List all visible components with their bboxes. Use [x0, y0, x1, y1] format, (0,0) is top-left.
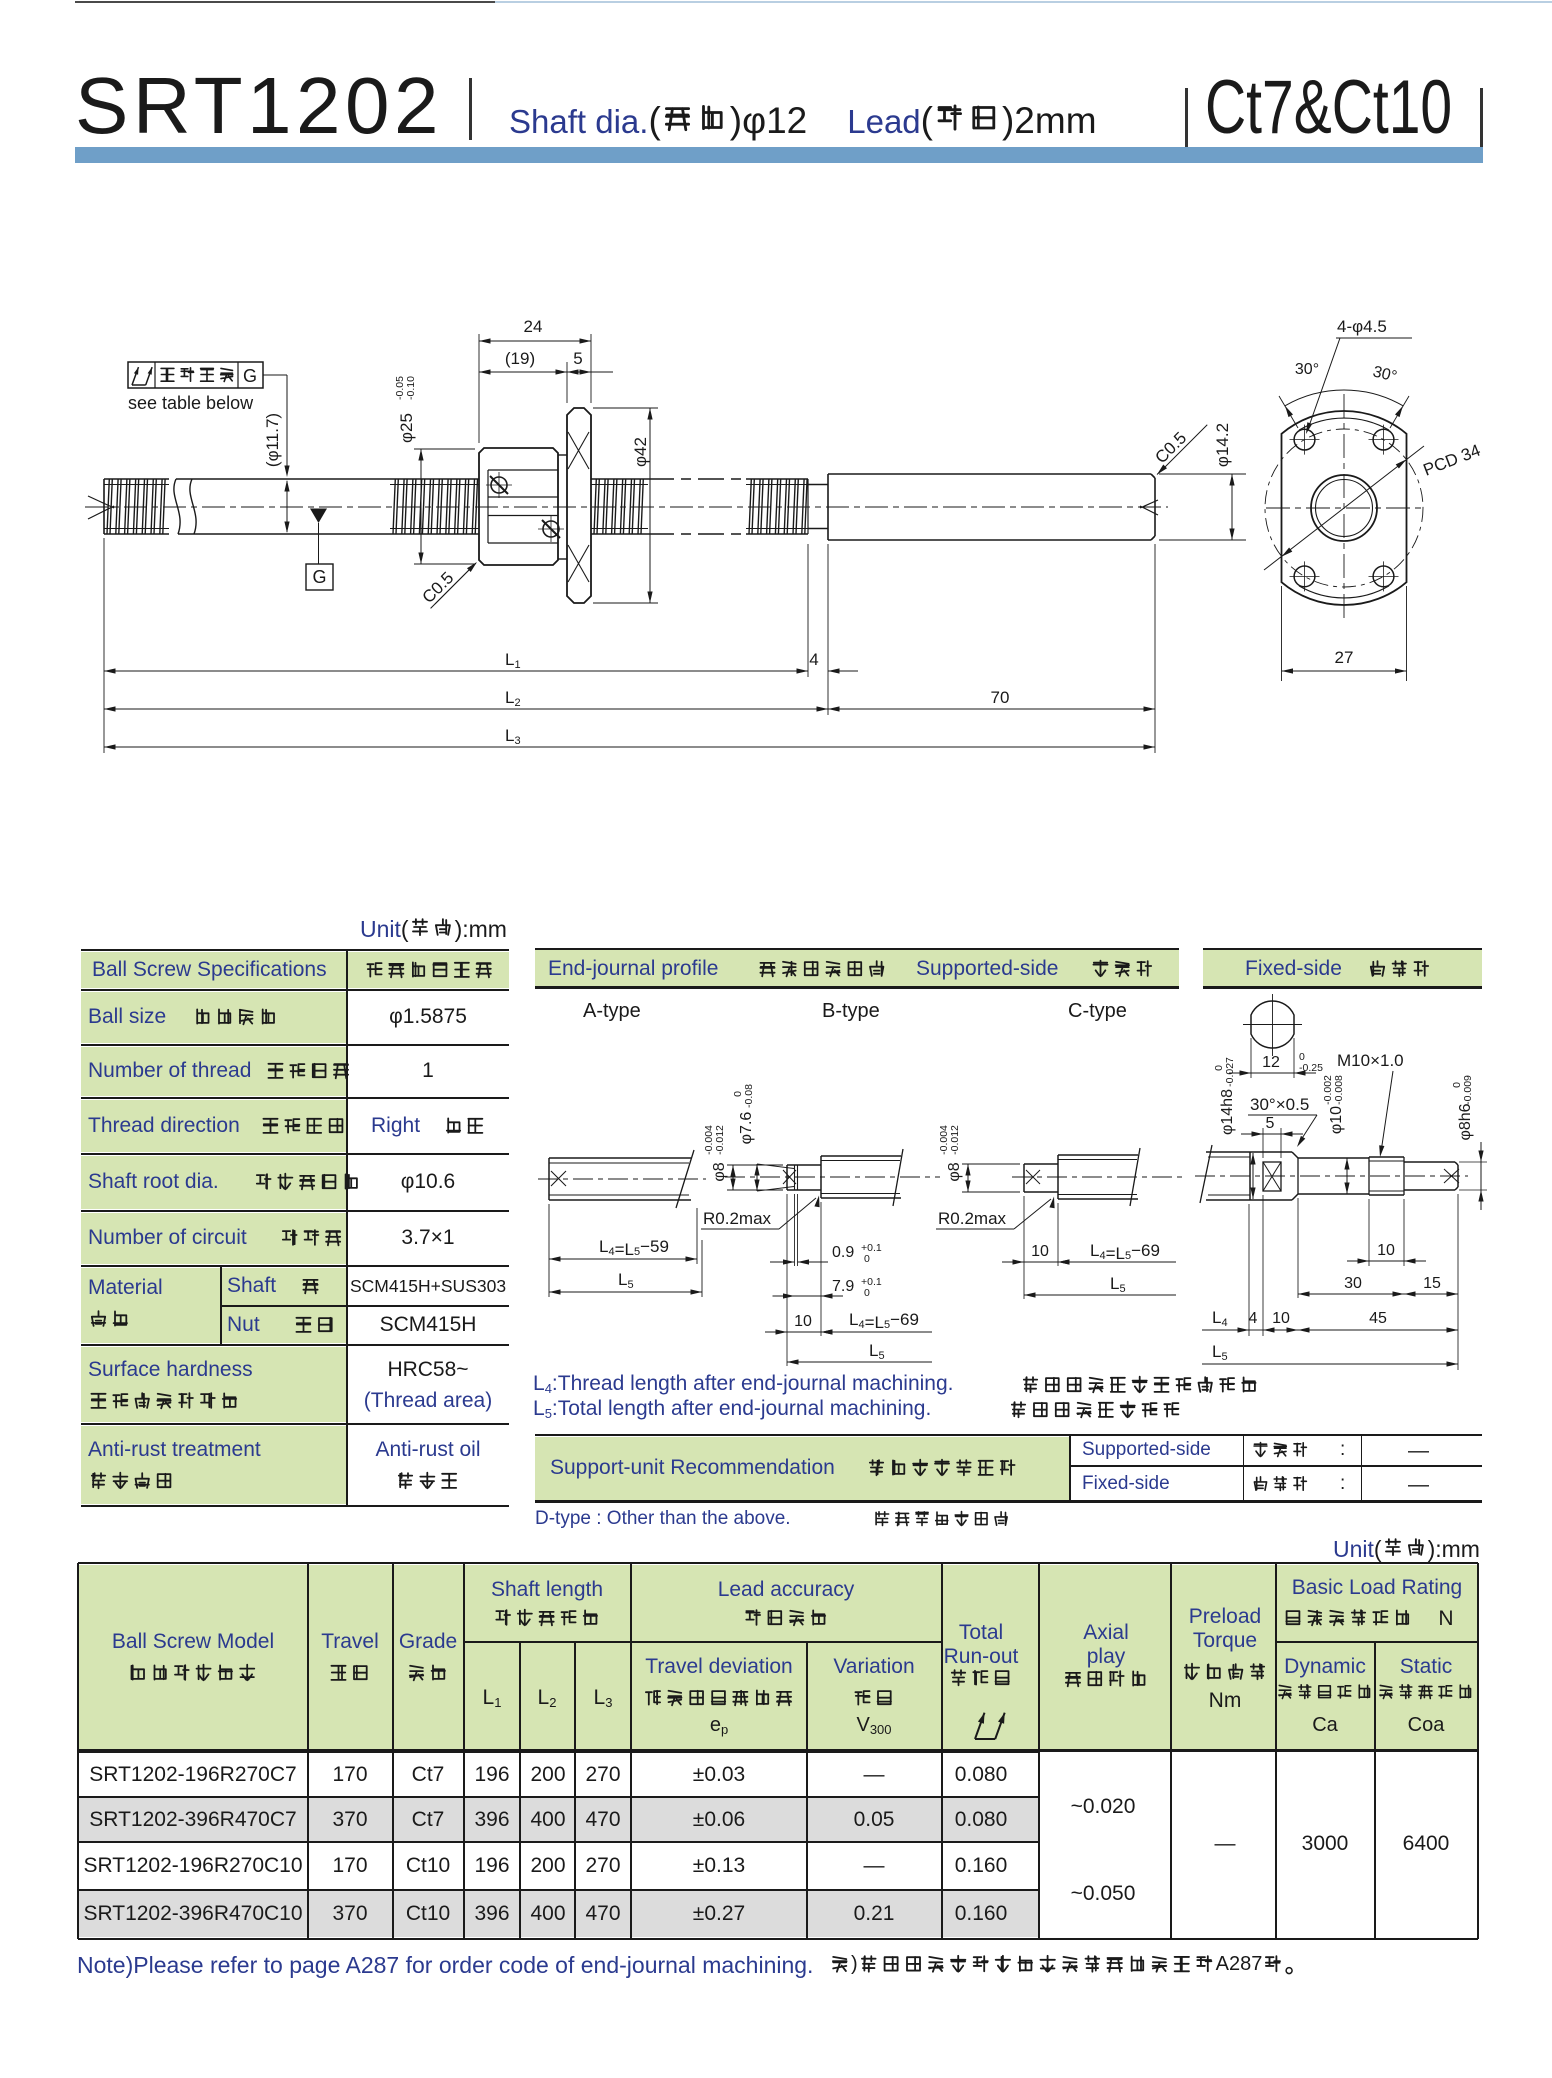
bottom dimension extension lines	[103, 538, 105, 753]
data row 4	[83, 1902, 302, 1926]
dimension L3	[104, 746, 1155, 748]
A-type label	[583, 1000, 641, 1023]
bottom note	[77, 1952, 813, 1979]
dim 5 (flats width)	[1262, 1128, 1264, 1158]
thread band 4	[746, 478, 808, 480]
dimension 70	[828, 708, 1155, 710]
dim 12	[1250, 1038, 1252, 1078]
fixed-side tip center mark	[1444, 1169, 1459, 1183]
note L4	[533, 1372, 954, 1396]
svg-text:L5: L5	[1212, 1342, 1228, 1363]
flange chamfer arcs	[1299, 418, 1389, 430]
grub screw 2	[543, 521, 559, 537]
svg-text:φ8: φ8	[946, 1162, 963, 1181]
plain shaft section	[176, 478, 390, 480]
fixed chain dims L4 4 10 45	[1248, 1204, 1250, 1336]
svg-text:15: 15	[1423, 1275, 1441, 1292]
C0.5 label nut	[417, 550, 476, 609]
spec row: surface hardness	[88, 1358, 253, 1382]
header divider 3	[1480, 88, 1483, 148]
G leader	[263, 374, 287, 376]
header subtitle	[509, 100, 1097, 142]
svg-text:4: 4	[1249, 1310, 1258, 1327]
flange end view outline	[1282, 411, 1407, 605]
C-type phi8 dim	[962, 1163, 1020, 1165]
dimension 24	[478, 334, 480, 443]
A-type break line	[676, 1150, 694, 1208]
spec table green cells	[81, 952, 509, 988]
svg-text:φ7.6: φ7.6	[738, 1112, 755, 1145]
bolt hole 1	[1294, 429, 1315, 450]
grub screw 1	[491, 477, 507, 493]
main table gray rows	[78, 1797, 1039, 1842]
spec row: shaft root dia	[88, 1170, 219, 1194]
svg-text:R0.2max: R0.2max	[938, 1209, 1007, 1228]
C-type label	[1068, 1000, 1127, 1023]
spec row: material	[88, 1276, 163, 1300]
svg-text:0.9: 0.9	[832, 1244, 854, 1261]
fixed-side header bar	[1203, 950, 1482, 986]
C-type center mark	[1026, 1170, 1040, 1184]
nut flange	[567, 408, 591, 603]
svg-text:φ10: φ10	[1328, 1106, 1345, 1134]
svg-text:L5: L5	[618, 1270, 634, 1291]
B-type journal stub	[786, 1165, 788, 1190]
B-type dim 10	[786, 1194, 788, 1366]
B-type groove	[794, 1165, 796, 1190]
fixed dim 10	[1368, 1199, 1370, 1266]
bolt hole 3	[1294, 566, 1315, 587]
svg-text:10: 10	[794, 1313, 812, 1330]
C-type centerline	[1012, 1176, 1182, 1178]
svg-text:7.9: 7.9	[832, 1278, 854, 1295]
surface mark triangle G	[310, 509, 327, 524]
svg-text:5: 5	[1266, 1115, 1275, 1132]
journal shaft	[827, 474, 829, 540]
header Ct7&Ct10	[1205, 64, 1452, 151]
fixed-side collar	[1250, 1151, 1292, 1153]
header blue bar	[75, 147, 1483, 163]
PCD circle	[1265, 429, 1423, 587]
wrench flats with X	[1263, 1162, 1281, 1191]
flange surface marks bottom	[568, 545, 589, 582]
screw shaft left tip	[103, 479, 105, 534]
svg-text:L5: L5	[1110, 1274, 1126, 1295]
svg-text:10: 10	[1272, 1310, 1290, 1327]
A-type center mark	[551, 1171, 566, 1186]
flange bore	[1311, 475, 1377, 541]
end-journal profile header bar	[535, 950, 1179, 986]
center mark left	[88, 496, 114, 508]
B-type centerline	[725, 1176, 940, 1178]
dimension L1	[104, 670, 808, 672]
spec row: ball size	[88, 1005, 166, 1029]
fixed-side screw	[1200, 1145, 1212, 1203]
data row 1	[89, 1763, 296, 1787]
data row 2	[89, 1808, 296, 1832]
C-type dim L5	[1024, 1294, 1176, 1296]
B-type phi8 dim	[727, 1164, 783, 1166]
svg-text:R0.2max: R0.2max	[703, 1209, 772, 1228]
svg-text:-0.008: -0.008	[1333, 1075, 1345, 1105]
journal center mark	[1140, 500, 1158, 508]
dashed crest between threads	[648, 478, 746, 480]
30 deg radial extensions	[1279, 396, 1298, 428]
fixed-side M10 thread	[1368, 1157, 1370, 1195]
thread band 3 (right of flange)	[591, 478, 648, 480]
data row 3	[83, 1854, 302, 1878]
svg-text:L4=L5−69: L4=L5−69	[1090, 1241, 1160, 1263]
svg-text:10: 10	[1377, 1242, 1395, 1259]
svg-text:45: 45	[1369, 1310, 1387, 1327]
main centerline	[85, 506, 1168, 508]
svg-text:-0.012: -0.012	[714, 1125, 726, 1155]
svg-text:L4=L5−59: L4=L5−59	[599, 1237, 669, 1259]
spec row: number of thread	[88, 1059, 251, 1083]
svg-text:30°×0.5: 30°×0.5	[1250, 1095, 1309, 1114]
C-type screw	[1057, 1155, 1059, 1199]
svg-text:-0.009: -0.009	[1462, 1075, 1474, 1105]
A-type centerline	[538, 1178, 706, 1180]
header divider 1	[469, 78, 472, 140]
B-type screw	[820, 1156, 822, 1198]
dimension phi11.7	[286, 481, 288, 532]
fixed-side phi8 tip	[1404, 1161, 1455, 1163]
dimension phi25	[414, 448, 475, 450]
C-type journal stub	[1023, 1164, 1025, 1192]
C-type dim 10	[1023, 1196, 1025, 1299]
C-type break line	[1130, 1148, 1140, 1206]
flange surface marks top	[568, 432, 589, 469]
svg-text:-0.25: -0.25	[1299, 1062, 1323, 1074]
dimension 27	[1281, 586, 1283, 681]
fixed dim 15	[1457, 1194, 1459, 1370]
screw neck before journal	[808, 484, 828, 486]
spec row: anti-rust	[88, 1438, 261, 1462]
svg-text:30: 30	[1344, 1275, 1362, 1292]
flange centerlines	[1343, 394, 1345, 622]
thread band 2	[390, 478, 479, 480]
svg-text:10: 10	[1031, 1243, 1049, 1260]
header divider 2	[1185, 88, 1188, 148]
G callout box	[128, 362, 263, 388]
cross-section circle with flats	[1251, 1001, 1294, 1048]
shaft break lines	[174, 479, 180, 534]
svg-text:-0.08: -0.08	[743, 1084, 755, 1108]
spec table header row	[92, 958, 327, 982]
phi14h8 dim	[1252, 1153, 1254, 1199]
spec row: number of circuit	[88, 1226, 247, 1250]
unit label (bottom)	[1333, 1536, 1480, 1563]
spec table borders	[81, 949, 509, 952]
B-type dim 0.9	[794, 1194, 796, 1266]
nut inner lines	[488, 469, 558, 471]
bolt hole 2	[1373, 429, 1394, 450]
ball nut body	[479, 448, 558, 565]
svg-text:L4=L5−69: L4=L5−69	[849, 1310, 919, 1332]
thread band 1	[104, 478, 169, 480]
svg-text:L4: L4	[1212, 1308, 1228, 1329]
B-type dim L5	[787, 1361, 932, 1363]
svg-text:0: 0	[864, 1287, 870, 1299]
B-type label	[822, 1000, 880, 1023]
svg-text:-0.027: -0.027	[1224, 1057, 1236, 1087]
svg-text:M10×1.0: M10×1.0	[1337, 1051, 1404, 1070]
support-unit recommendation box	[535, 1437, 1070, 1500]
page top edge line	[75, 1, 495, 3]
dimension phi42	[593, 407, 658, 409]
runout icon in table	[972, 1707, 1012, 1741]
phi10 dim	[1346, 1158, 1348, 1194]
C-type dim L4=L5-69	[1058, 1261, 1176, 1263]
dimension phi14.2	[1159, 473, 1246, 475]
D-type note	[535, 1508, 791, 1530]
fixed dim L5	[1202, 1363, 1458, 1365]
note L5	[533, 1397, 931, 1421]
B-type center mark	[783, 1170, 796, 1184]
B-type dim L4=L5-69	[821, 1331, 932, 1333]
B-type dim 7.9	[820, 1202, 822, 1336]
svg-text:φ14h8: φ14h8	[1219, 1089, 1236, 1135]
fixed-side phi10 section	[1297, 1158, 1299, 1194]
PCD diagonal leader	[1264, 446, 1424, 570]
svg-text:φ8h6: φ8h6	[1457, 1103, 1474, 1140]
B-type phi7.6 dim	[757, 1164, 794, 1169]
main table header texts	[112, 1630, 274, 1654]
A-type dims	[548, 1204, 550, 1297]
A-type shaft	[548, 1158, 550, 1200]
dimension L2	[104, 708, 828, 710]
bolt hole 4	[1373, 566, 1394, 587]
dimension (19) and 5	[566, 362, 568, 403]
unit label (top)	[360, 916, 507, 943]
main table borders	[78, 1562, 1478, 1565]
svg-text:L5: L5	[869, 1341, 885, 1362]
B-type break line	[893, 1149, 903, 1206]
fixed-side centerline	[1195, 1175, 1468, 1177]
spec row: thread direction	[88, 1114, 240, 1138]
svg-text:-0.012: -0.012	[949, 1125, 961, 1155]
phi8h6 dim	[1459, 1161, 1487, 1163]
title SRT1202	[75, 60, 443, 152]
fixed dim 30	[1297, 1198, 1299, 1298]
main table green header	[78, 1565, 1478, 1749]
svg-text:0: 0	[864, 1253, 870, 1265]
merged cells	[1071, 1795, 1136, 1819]
svg-text:12: 12	[1262, 1054, 1280, 1071]
nut-flange lip	[558, 454, 567, 456]
30 deg dimension arcs	[1285, 390, 1344, 406]
svg-text:φ8: φ8	[711, 1162, 728, 1181]
C0.5 label journal end	[1149, 411, 1208, 470]
